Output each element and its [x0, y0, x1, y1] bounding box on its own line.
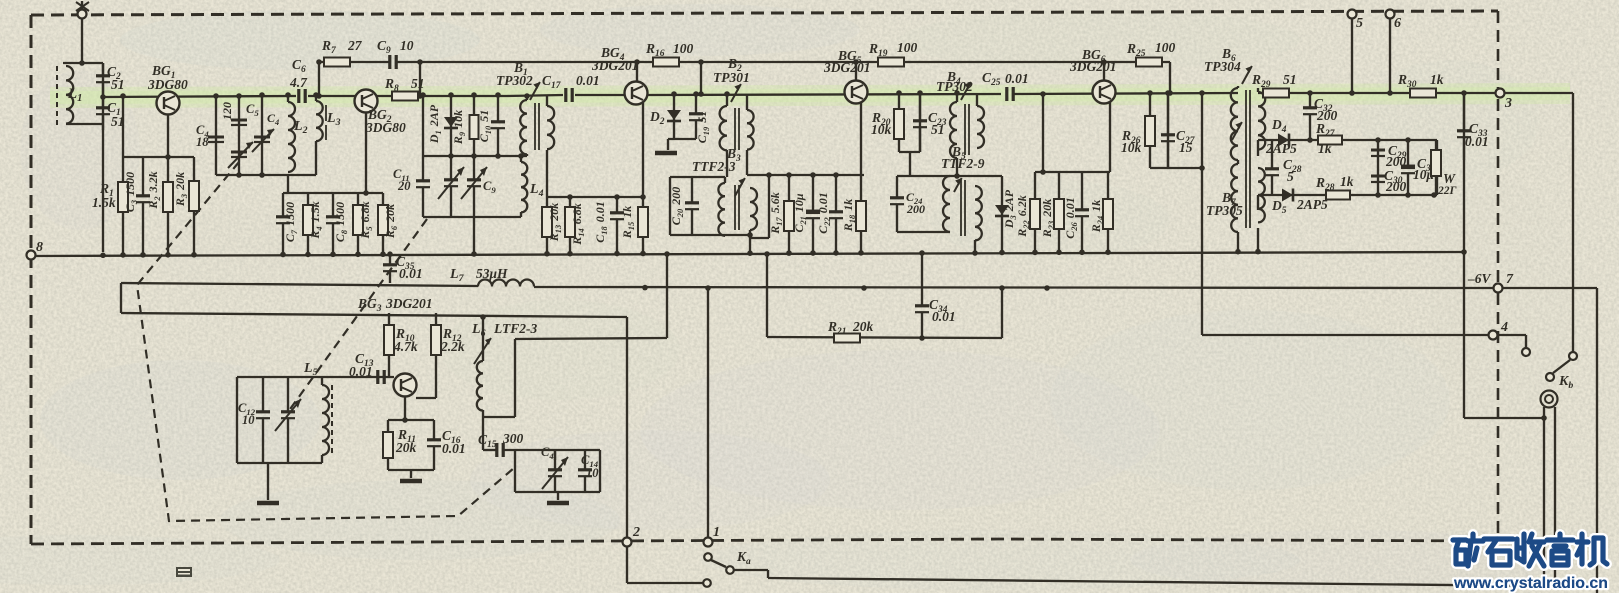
svg-text:18: 18: [196, 135, 209, 149]
svg-text:0.01: 0.01: [576, 73, 600, 88]
svg-text:2AP5: 2AP5: [1265, 141, 1297, 156]
svg-text:51: 51: [931, 122, 945, 137]
svg-text:R17 5.6k: R17 5.6k: [768, 192, 784, 234]
svg-text:10: 10: [242, 413, 255, 427]
svg-text:1k: 1k: [1340, 174, 1354, 189]
svg-text:D1 2AP: D1 2AP: [427, 104, 443, 144]
svg-text:R5 6.8k: R5 6.8k: [358, 201, 374, 239]
svg-text:1k: 1k: [1318, 141, 1332, 156]
svg-text:20k: 20k: [852, 319, 874, 334]
svg-text:W: W: [1443, 171, 1456, 186]
svg-text:200: 200: [1385, 179, 1407, 194]
svg-text:2.2k: 2.2k: [440, 339, 465, 354]
svg-text:3DG201: 3DG201: [823, 60, 871, 75]
svg-text:5: 5: [1287, 169, 1294, 184]
svg-text:6: 6: [1394, 16, 1401, 31]
svg-text:3DG201: 3DG201: [1069, 59, 1117, 74]
svg-text:100: 100: [1155, 40, 1176, 55]
svg-text:4.7k: 4.7k: [393, 339, 418, 354]
svg-text:TP302: TP302: [496, 73, 533, 88]
svg-text:10k: 10k: [871, 122, 892, 137]
svg-text:100: 100: [673, 41, 694, 56]
svg-text:3: 3: [1504, 96, 1512, 111]
svg-text:1: 1: [713, 525, 720, 540]
svg-text:www.crystalradio.cn: www.crystalradio.cn: [1453, 575, 1608, 592]
svg-text:20: 20: [397, 179, 411, 193]
svg-text:C22 0.01: C22 0.01: [816, 192, 832, 233]
svg-text:C10 51: C10 51: [477, 110, 493, 142]
svg-text:R24 1k: R24 1k: [1089, 200, 1105, 233]
svg-text:C4: C4: [267, 111, 280, 127]
svg-text:R3 20k: R3 20k: [173, 172, 189, 207]
svg-text:0.01: 0.01: [1005, 71, 1029, 86]
svg-text:51: 51: [1283, 72, 1297, 87]
svg-text:0.01: 0.01: [399, 266, 423, 281]
svg-text:3DG80: 3DG80: [365, 120, 406, 135]
svg-text:R4 1.5k: R4 1.5k: [308, 201, 324, 239]
svg-text:R23 20k: R23 20k: [1040, 199, 1056, 238]
svg-text:300: 300: [502, 431, 524, 446]
svg-text:5: 5: [1356, 16, 1363, 31]
svg-text:100: 100: [897, 40, 918, 55]
svg-text:1.5k: 1.5k: [92, 195, 116, 210]
svg-text:51: 51: [411, 76, 425, 91]
svg-text:0.01: 0.01: [442, 441, 466, 456]
svg-text:C20 200: C20 200: [669, 187, 685, 225]
svg-text:R14 6.8k: R14 6.8k: [570, 203, 586, 245]
svg-text:4: 4: [1500, 320, 1508, 335]
svg-text:TP304: TP304: [1204, 59, 1241, 74]
svg-text:1k: 1k: [1430, 72, 1444, 87]
svg-text:C8 1500: C8 1500: [333, 202, 349, 242]
svg-text:8: 8: [36, 240, 43, 255]
svg-text:7: 7: [1506, 272, 1514, 287]
svg-text:R9 10k: R9 10k: [451, 110, 467, 145]
svg-text:TTF2-9: TTF2-9: [941, 156, 985, 171]
svg-text:R18 1k: R18 1k: [841, 199, 857, 232]
svg-text:LTF2-3: LTF2-3: [493, 321, 537, 336]
svg-text:3DG80: 3DG80: [147, 77, 188, 92]
svg-text:C26 0.01: C26 0.01: [1063, 197, 1079, 238]
svg-text:–6V: –6V: [1467, 271, 1492, 286]
svg-text:R22 6.2k: R22 6.2k: [1015, 195, 1031, 237]
svg-text:C7 1500: C7 1500: [283, 202, 299, 242]
svg-text:TTF2-3: TTF2-3: [692, 159, 736, 174]
svg-text:10k: 10k: [1121, 140, 1142, 155]
svg-text:3DG201: 3DG201: [591, 58, 639, 73]
svg-text:10: 10: [400, 38, 414, 53]
svg-text:2AP5: 2AP5: [1296, 197, 1328, 212]
svg-text:22Γ: 22Γ: [1437, 185, 1457, 197]
svg-text:R6 20k: R6 20k: [383, 204, 399, 239]
svg-text:27: 27: [347, 38, 363, 53]
svg-text:120: 120: [220, 102, 234, 120]
svg-text:15: 15: [1179, 140, 1193, 155]
svg-text:2: 2: [632, 525, 640, 540]
svg-text:R15 1k: R15 1k: [620, 206, 636, 239]
svg-text:R13 20k: R13 20k: [547, 203, 563, 242]
svg-text:C18 0.01: C18 0.01: [593, 201, 609, 242]
svg-text:0.01: 0.01: [349, 364, 373, 379]
svg-text:200: 200: [906, 202, 925, 216]
svg-text:C21 10μ: C21 10μ: [792, 193, 808, 232]
svg-text:C3 1500: C3 1500: [123, 172, 139, 212]
svg-text:51: 51: [111, 77, 125, 92]
svg-text:0.01: 0.01: [1465, 134, 1489, 149]
svg-text:10: 10: [586, 466, 599, 480]
svg-text:TP301: TP301: [713, 70, 750, 85]
svg-text:53μH: 53μH: [476, 266, 508, 281]
svg-text:0.01: 0.01: [932, 309, 956, 324]
svg-text:C19 51: C19 51: [695, 111, 711, 143]
svg-text:20k: 20k: [395, 440, 417, 455]
svg-text:R2 3.2k: R2 3.2k: [146, 171, 162, 209]
svg-text:4.7: 4.7: [289, 75, 308, 90]
